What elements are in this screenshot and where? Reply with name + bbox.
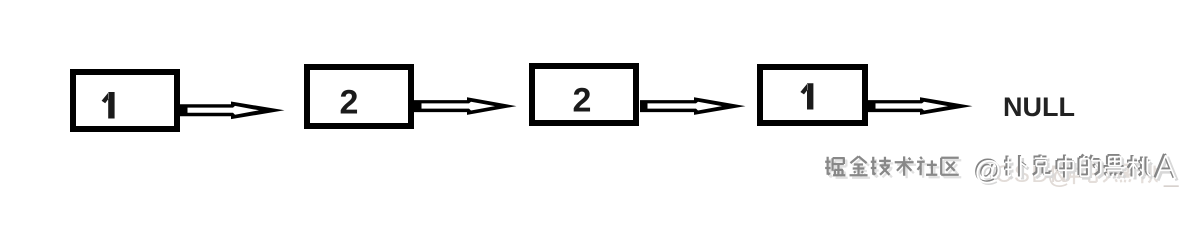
digit 1 (first node value) [102, 92, 115, 119]
digit 1 (fourth node value) [800, 83, 813, 109]
node box 1 [73, 72, 177, 129]
watermark right: gray bold text pass [973, 154, 1174, 184]
watermark left: light emboss shadow pass [828, 159, 962, 178]
node box 2 [307, 67, 411, 126]
faint secondary watermark (CSDN layer) [995, 158, 1179, 189]
arrow 4 [868, 97, 973, 115]
watermark right: light emboss shadow pass [976, 157, 1177, 187]
node box 4 [760, 67, 865, 123]
watermark left: gray text pass [825, 156, 959, 175]
watermark right: white carve pass [974, 155, 1175, 185]
svg-text:2: 2 [340, 84, 359, 122]
arrow 3 [640, 97, 746, 115]
svg-text:NULL: NULL [1003, 92, 1075, 122]
node box 3 [532, 66, 636, 123]
arrow 2 [414, 97, 517, 115]
svg-text:2: 2 [573, 82, 592, 120]
arrow 1 [180, 102, 285, 120]
